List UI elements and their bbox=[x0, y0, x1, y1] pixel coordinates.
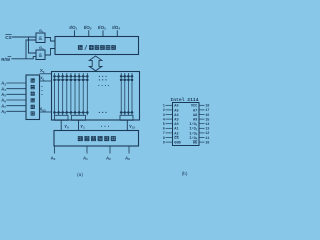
svg-text:13: 13 bbox=[205, 128, 209, 132]
pin 4 (A3) bbox=[163, 118, 179, 122]
memory cell array box bbox=[52, 72, 140, 121]
wire Y0 bbox=[60, 120, 62, 130]
wire CS to G1 bbox=[12, 36, 36, 38]
column address decoder box U3 bbox=[54, 131, 139, 147]
wire X1 bbox=[40, 80, 52, 82]
svg-text:A9: A9 bbox=[193, 119, 197, 123]
svg-text:A8: A8 bbox=[193, 114, 197, 118]
node CS input label bbox=[5, 35, 11, 40]
svg-text:I/O1: I/O1 bbox=[189, 122, 197, 127]
wire CS branch to G2 bbox=[29, 37, 37, 53]
svg-text:2: 2 bbox=[163, 109, 165, 113]
wire A4 bbox=[6, 88, 26, 90]
svg-text:&: & bbox=[39, 36, 43, 42]
column gate bracket Y15 bbox=[120, 115, 133, 120]
label 列地址译码器 bbox=[78, 136, 116, 141]
svg-text:A2: A2 bbox=[174, 132, 178, 136]
svg-text:A2: A2 bbox=[106, 155, 111, 161]
svg-text:I/O2: I/O2 bbox=[189, 127, 197, 132]
read/write control circuit box U1 bbox=[55, 37, 139, 55]
svg-text:3: 3 bbox=[163, 114, 165, 118]
node R/W input label bbox=[1, 57, 11, 62]
svg-text:I/O3: I/O3 bbox=[98, 25, 106, 31]
svg-text:15: 15 bbox=[205, 118, 209, 122]
pin 6 (A1) bbox=[163, 128, 179, 132]
wire I/O1 bbox=[74, 30, 76, 36]
svg-text:11: 11 bbox=[205, 137, 209, 141]
pin 12 (I/O3) bbox=[189, 131, 209, 136]
pin 1 (A6) bbox=[163, 105, 179, 109]
ellipsis dots word line X0 bbox=[99, 76, 107, 77]
wire A7 bbox=[6, 105, 26, 107]
svg-text:Y0: Y0 bbox=[64, 124, 69, 130]
gate G2 (AND) bbox=[36, 46, 45, 59]
wire I/O3 bbox=[102, 30, 104, 36]
bus double-arrow between control circuit and array bbox=[89, 56, 102, 71]
wire G2 output to control box bbox=[45, 49, 55, 56]
pin 13 (I/O2) bbox=[189, 127, 209, 132]
word line X0 with cells bbox=[53, 75, 133, 77]
svg-text:10: 10 bbox=[205, 141, 209, 145]
wire I/O4 bbox=[116, 30, 118, 36]
svg-text:9: 9 bbox=[163, 141, 165, 145]
svg-text:A0: A0 bbox=[174, 123, 178, 127]
ellipsis dots array center bbox=[98, 85, 109, 86]
gate G1 (AND) bbox=[36, 29, 45, 42]
svg-text:I/O3: I/O3 bbox=[189, 131, 197, 136]
svg-text:GND: GND bbox=[174, 142, 181, 146]
pin 9 (GND) bbox=[163, 141, 182, 145]
svg-text:1: 1 bbox=[163, 105, 165, 109]
svg-text:8: 8 bbox=[163, 137, 165, 141]
wire G1 output to control box bbox=[45, 38, 55, 42]
pin 17 (A7) bbox=[193, 109, 209, 113]
word line X63 with cells bbox=[53, 111, 133, 113]
wire R/W branch to G1 bbox=[26, 40, 36, 59]
svg-text:VCC: VCC bbox=[191, 105, 198, 109]
row address decoder box U2 bbox=[26, 75, 40, 120]
svg-text:12: 12 bbox=[205, 132, 209, 136]
svg-text:I/O1: I/O1 bbox=[69, 25, 77, 31]
svg-text:X0: X0 bbox=[40, 68, 45, 74]
ellipsis dots word line X63 bbox=[99, 112, 107, 113]
svg-text:Y15: Y15 bbox=[129, 124, 135, 130]
svg-text:I/O4: I/O4 bbox=[112, 25, 120, 31]
svg-text:4: 4 bbox=[163, 118, 165, 122]
pin 5 (A0) bbox=[163, 123, 179, 127]
svg-text:A5: A5 bbox=[174, 109, 178, 113]
svg-text:CS: CS bbox=[5, 35, 11, 40]
svg-text:A6: A6 bbox=[174, 105, 178, 109]
pin 18 (VCC) bbox=[191, 105, 210, 109]
wire A3 bbox=[6, 82, 26, 84]
wire A9 column input bbox=[128, 146, 130, 154]
svg-text:R/W: R/W bbox=[1, 57, 11, 62]
svg-text:(a): (a) bbox=[77, 172, 83, 178]
pin 2 (A5) bbox=[163, 109, 179, 113]
svg-text:I/O4: I/O4 bbox=[189, 136, 197, 141]
svg-text:A9: A9 bbox=[125, 155, 130, 161]
svg-text:18: 18 bbox=[205, 105, 209, 109]
column gate bracket Y1 bbox=[72, 115, 86, 120]
wire X63 bbox=[40, 111, 52, 113]
svg-text:14: 14 bbox=[205, 123, 209, 127]
pin 11 (I/O4) bbox=[189, 136, 209, 141]
svg-text:A7: A7 bbox=[193, 109, 197, 113]
wire Y15 bbox=[126, 120, 128, 130]
svg-text:A1: A1 bbox=[174, 128, 178, 132]
wire Y1 bbox=[78, 120, 80, 130]
wire I/O2 bbox=[88, 30, 90, 36]
bit lines right group bbox=[121, 73, 132, 115]
svg-text:5: 5 bbox=[163, 123, 165, 127]
ellipsis dots X column bbox=[41, 86, 42, 95]
word line X1 with cells bbox=[53, 79, 133, 81]
wire A5 bbox=[6, 93, 26, 95]
pin 8 (CS) bbox=[163, 136, 180, 141]
svg-text:Y1: Y1 bbox=[80, 124, 85, 130]
wire R/W to G2 bbox=[11, 57, 36, 59]
svg-text:16: 16 bbox=[205, 114, 209, 118]
label 行地址译码器 (vertical) bbox=[31, 78, 35, 115]
ellipsis dots between Y labels bbox=[101, 126, 109, 127]
svg-text:X1: X1 bbox=[40, 76, 45, 82]
bit lines left group bbox=[55, 73, 88, 115]
wire X0 bbox=[40, 73, 52, 75]
wire A1 column input bbox=[86, 146, 88, 154]
svg-text:17: 17 bbox=[205, 109, 209, 113]
pin 15 (A9) bbox=[193, 118, 209, 122]
DIP package body bbox=[173, 103, 200, 146]
svg-text:I/O2: I/O2 bbox=[84, 25, 92, 31]
svg-text:7: 7 bbox=[163, 132, 165, 136]
svg-text:X63: X63 bbox=[40, 107, 46, 113]
wire A0 column input bbox=[54, 146, 56, 154]
pin 14 (I/O1) bbox=[189, 122, 209, 127]
wire A8 bbox=[6, 110, 26, 112]
svg-text:A3: A3 bbox=[174, 119, 178, 123]
pin 10 (WE) bbox=[193, 141, 210, 146]
ellipsis dots word line X1 bbox=[99, 79, 107, 80]
label 读/写控制电路 bbox=[78, 45, 116, 50]
column gate bracket Y0 bbox=[55, 115, 69, 120]
svg-text:A8: A8 bbox=[1, 109, 6, 115]
svg-text:A1: A1 bbox=[83, 155, 88, 161]
pin 16 (A8) bbox=[193, 114, 209, 118]
svg-text:A0: A0 bbox=[51, 155, 56, 161]
svg-text:6: 6 bbox=[163, 128, 165, 132]
svg-text:(b): (b) bbox=[182, 171, 188, 177]
svg-text:&: & bbox=[39, 53, 43, 59]
pin 7 (A2) bbox=[163, 132, 179, 136]
wire A2 column input bbox=[109, 146, 111, 154]
pin 3 (A4) bbox=[163, 114, 180, 118]
wire A6 bbox=[6, 99, 26, 101]
